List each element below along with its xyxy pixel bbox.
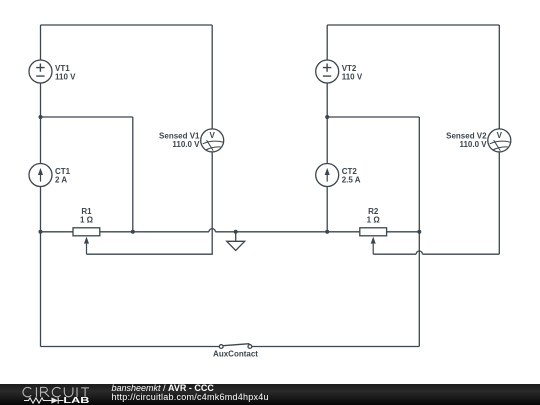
wire inner right horizontal — [327, 116, 419, 118]
CircuitLab logo — [8, 384, 108, 405]
label AuxContact — [213, 350, 258, 359]
ground — [227, 232, 245, 251]
wire inner left vertical — [132, 117, 134, 232]
label Sensed V2 value — [446, 132, 487, 150]
wire inner left horizontal — [41, 116, 133, 118]
wire right inner vertical upper — [326, 25, 328, 60]
switch AuxContact — [219, 344, 252, 349]
resistor R1 (potentiometer) — [73, 228, 100, 254]
svg-text:2.5 A: 2.5 A — [342, 176, 361, 185]
node below VT2 — [325, 115, 329, 119]
voltmeter Sensed V2 — [488, 25, 511, 152]
svg-text:1 Ω: 1 Ω — [367, 215, 381, 224]
node bus left — [39, 230, 43, 234]
wire hop over mid-right vertical — [416, 251, 422, 254]
svg-text:V: V — [497, 131, 503, 140]
current source CT1 — [29, 164, 52, 187]
voltmeter Sensed V1 — [201, 25, 224, 152]
svg-text:AuxContact: AuxContact — [213, 350, 258, 359]
wire mid-right vertical — [418, 117, 420, 347]
svg-text:110.0 V: 110.0 V — [172, 140, 200, 149]
wire V1 lead down and left to R1 wiper — [87, 152, 213, 254]
node bus right end — [417, 230, 421, 234]
svg-text:1 Ω: 1 Ω — [80, 215, 94, 224]
label CT2 value — [342, 167, 361, 185]
voltage source VT1 — [29, 60, 52, 83]
wire bus hop to R2 — [215, 231, 359, 233]
wire left loop top — [41, 24, 213, 26]
wire bus right of R2 — [387, 231, 420, 233]
wire VT2 to CT2 — [326, 83, 328, 164]
label R2 value — [367, 207, 381, 224]
label VT2 value — [342, 64, 363, 82]
wire V2 lead left to R2 wiper — [373, 253, 416, 255]
wire bus R1 to hop — [100, 231, 209, 233]
voltage source VT2 — [316, 60, 339, 83]
footer bar — [0, 384, 540, 405]
wire V2 lead left segment right of hop — [423, 253, 500, 255]
label R1 value — [80, 207, 94, 224]
wire CT1 down to bottom — [40, 187, 42, 347]
wire right loop top — [327, 24, 499, 26]
current source CT2 — [316, 164, 339, 187]
svg-text:2 A: 2 A — [55, 176, 67, 185]
wire CT2 to bus — [326, 187, 328, 232]
label Sensed V1 value — [159, 132, 200, 150]
node ground junction — [234, 230, 238, 234]
node bus CT2 junction — [325, 230, 329, 234]
node bus inner-left junction — [131, 230, 135, 234]
wire VT1 to CT1 — [40, 83, 42, 164]
footer text — [112, 384, 269, 402]
svg-text:V: V — [210, 131, 216, 140]
wire bus left of R1 — [41, 231, 74, 233]
label CT1 value — [55, 167, 71, 185]
svg-text:110 V: 110 V — [55, 72, 76, 81]
svg-text:110 V: 110 V — [342, 72, 363, 81]
label VT1 value — [55, 64, 76, 82]
wire bottom left — [41, 346, 220, 348]
svg-text:110.0 V: 110.0 V — [459, 140, 487, 149]
wire left vertical upper — [40, 25, 42, 60]
wire V2 lead down — [498, 152, 500, 254]
wire bottom right — [252, 346, 419, 348]
resistor R2 (potentiometer) — [360, 228, 387, 254]
node below VT1 — [39, 115, 43, 119]
wire hop over V1 lead — [209, 229, 215, 232]
svg-text:LAB: LAB — [63, 395, 89, 405]
